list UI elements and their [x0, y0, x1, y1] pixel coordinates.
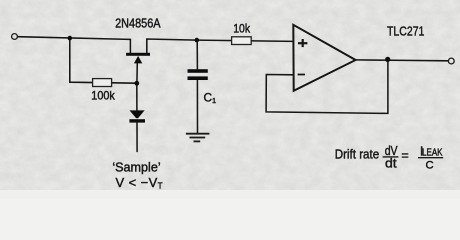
svg-text:Drift rate: Drift rate — [335, 147, 380, 162]
svg-text:100k: 100k — [91, 88, 115, 102]
svg-text:V < −VT: V < −VT — [116, 175, 163, 191]
svg-text:TLC271: TLC271 — [387, 25, 424, 39]
svg-text:C: C — [426, 159, 434, 171]
svg-text:=: = — [401, 148, 408, 162]
svg-text:dt: dt — [385, 156, 397, 171]
svg-text:10k: 10k — [233, 22, 251, 36]
svg-text:2N4856A: 2N4856A — [115, 16, 161, 31]
svg-text:‘Sample’: ‘Sample’ — [112, 161, 160, 175]
